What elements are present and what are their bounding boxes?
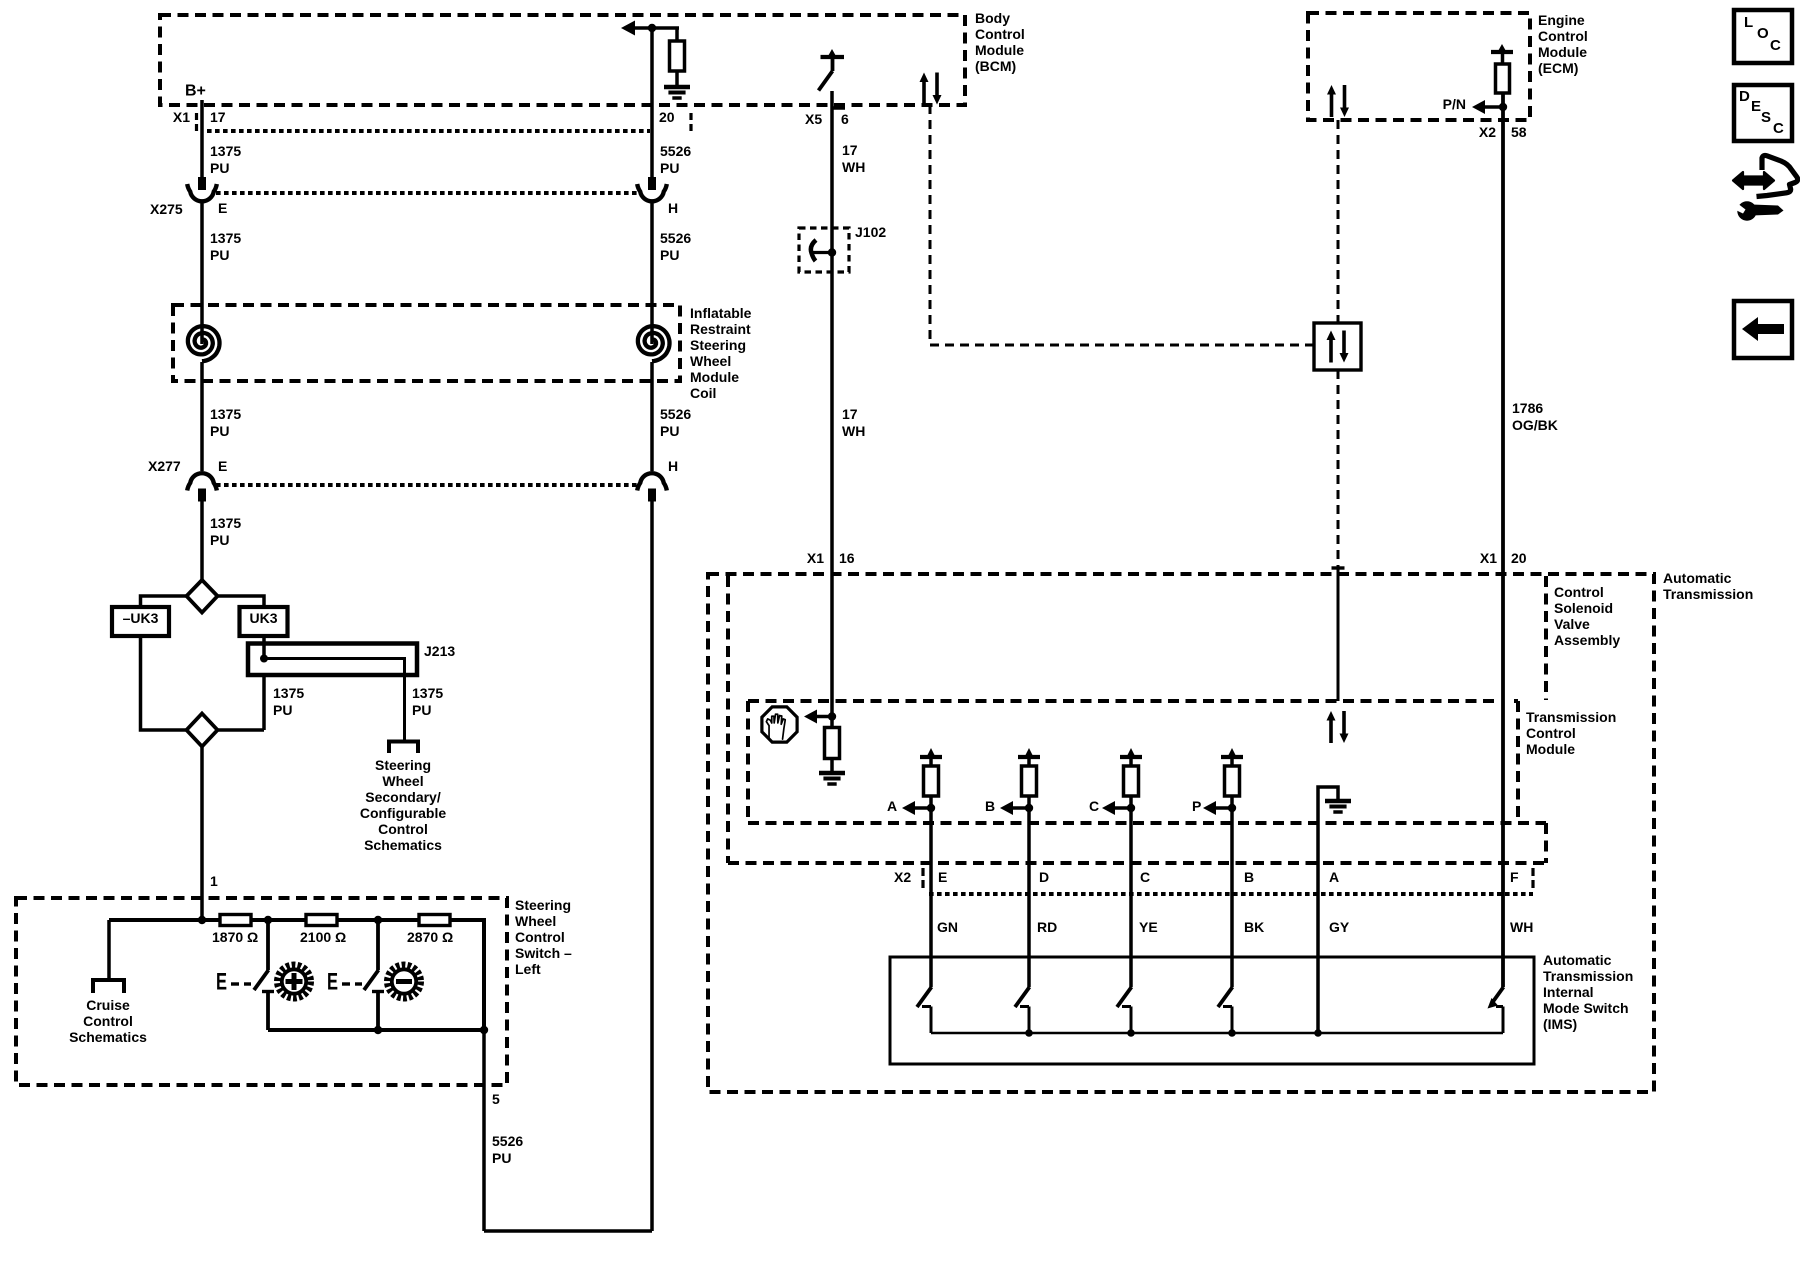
svg-text:Module: Module <box>690 369 739 385</box>
svg-text:OG/BK: OG/BK <box>1512 417 1558 433</box>
svg-text:PU: PU <box>210 532 229 548</box>
svg-text:D: D <box>1739 88 1750 105</box>
wire BK <box>1230 894 1234 987</box>
IMS box <box>890 957 1534 1064</box>
svg-text:(BCM): (BCM) <box>975 58 1016 74</box>
svg-text:–UK3: –UK3 <box>123 610 159 626</box>
svg-text:1870 Ω: 1870 Ω <box>212 929 258 945</box>
svg-text:17: 17 <box>842 406 858 422</box>
svg-text:Coil: Coil <box>690 385 716 401</box>
wire 5526 PU seg2 <box>650 201 654 344</box>
Inflatable Restraint coil box <box>173 305 680 381</box>
net dashed BCM to box <box>930 344 1314 347</box>
svg-text:RD: RD <box>1037 919 1057 935</box>
IMS switch blade <box>1218 987 1233 1007</box>
svg-text:X5: X5 <box>805 111 822 127</box>
svg-text:Control: Control <box>1526 725 1576 741</box>
fuse box -UK3 <box>112 607 169 636</box>
wire ECM pin <box>1501 93 1505 555</box>
svg-text:E: E <box>216 968 227 995</box>
svg-text:X1: X1 <box>173 109 190 125</box>
svg-text:Module: Module <box>1526 741 1575 757</box>
splice diamond S1 <box>187 580 218 613</box>
svg-text:5526: 5526 <box>660 406 691 422</box>
wire -UK3 down <box>141 636 187 730</box>
bus in switch box <box>109 918 220 922</box>
svg-text:6: 6 <box>841 111 849 127</box>
svg-text:Solenoid: Solenoid <box>1554 600 1613 616</box>
svg-text:B: B <box>985 798 995 814</box>
svg-text:1375: 1375 <box>210 143 241 159</box>
arrow A <box>902 801 915 815</box>
svg-text:PU: PU <box>492 1150 511 1166</box>
svg-text:BK: BK <box>1244 919 1264 935</box>
svg-text:B: B <box>1244 869 1254 885</box>
Control Solenoid Valve Assembly box <box>726 576 730 863</box>
svg-text:D: D <box>1039 869 1049 885</box>
svg-text:PU: PU <box>660 247 679 263</box>
svg-text:1375: 1375 <box>210 515 241 531</box>
off-page bracket cruise <box>93 980 124 993</box>
Automatic Transmission box <box>708 574 1654 1092</box>
svg-text:E: E <box>218 200 227 216</box>
gear minus <box>387 965 421 999</box>
X275 row line <box>216 191 638 195</box>
connector X277 right <box>637 473 667 490</box>
resistor below arrow <box>830 717 834 728</box>
svg-text:PU: PU <box>210 247 229 263</box>
svg-text:J213: J213 <box>424 643 455 659</box>
svg-text:L: L <box>1744 14 1753 31</box>
net dashed ECM down <box>1337 120 1340 323</box>
svg-text:S: S <box>1761 109 1771 126</box>
svg-text:C: C <box>1773 120 1784 137</box>
fuse box UK3 <box>240 607 288 636</box>
wire 1375 PU below J213 <box>262 675 266 730</box>
svg-text:WH: WH <box>842 423 865 439</box>
switch 2 (resume) <box>376 920 380 970</box>
svg-text:PU: PU <box>412 702 431 718</box>
wire 5526 PU right column long <box>650 501 654 1231</box>
svg-text:PU: PU <box>660 423 679 439</box>
wire 17 WH upper <box>830 130 834 555</box>
svg-text:Control: Control <box>83 1013 133 1029</box>
svg-text:1375: 1375 <box>210 406 241 422</box>
svg-text:Control: Control <box>378 821 428 837</box>
Engine Control Module (ECM) box <box>1308 13 1530 120</box>
svg-text:Body: Body <box>975 10 1010 26</box>
IMS switch blade <box>1015 987 1030 1007</box>
svg-text:P/N: P/N <box>1443 96 1466 112</box>
X277 row line <box>216 483 638 487</box>
svg-text:Restraint: Restraint <box>690 321 751 337</box>
coil left spiral <box>188 326 220 361</box>
ground in TCM right <box>1325 799 1351 804</box>
svg-text:17: 17 <box>210 109 226 125</box>
svg-text:Steering: Steering <box>690 337 746 353</box>
gear plus <box>277 965 311 999</box>
data link hand symbol <box>762 707 797 742</box>
solenoid B <box>1018 755 1040 759</box>
svg-text:H: H <box>668 458 678 474</box>
svg-text:YE: YE <box>1139 919 1158 935</box>
net arrows box <box>1314 323 1361 370</box>
wire X5-6 stub <box>830 91 834 130</box>
solenoid P <box>1221 755 1243 759</box>
svg-text:Module: Module <box>1538 44 1587 60</box>
svg-text:Switch –: Switch – <box>515 945 572 961</box>
svg-text:X2: X2 <box>1479 124 1496 140</box>
resistor 2870 <box>419 915 450 926</box>
svg-text:Transmission: Transmission <box>1526 709 1616 725</box>
resistor 2100 <box>306 915 337 926</box>
wire 1786 into transmission <box>1501 555 1505 987</box>
svg-text:Internal: Internal <box>1543 984 1594 1000</box>
TCM net arrows <box>1329 719 1333 743</box>
svg-text:UK3: UK3 <box>249 610 277 626</box>
icon back arrow box <box>1734 301 1792 358</box>
arrow to hand <box>804 710 817 724</box>
svg-text:Control: Control <box>1554 584 1604 600</box>
svg-text:Inflatable: Inflatable <box>690 305 752 321</box>
svg-text:X275: X275 <box>150 201 183 217</box>
wire S1 left branch <box>141 596 187 607</box>
wire YE <box>1129 894 1133 987</box>
svg-text:20: 20 <box>1511 550 1527 566</box>
wire 1375 PU seg3 <box>200 501 204 580</box>
svg-text:Transmission: Transmission <box>1663 586 1753 602</box>
svg-text:E: E <box>1751 98 1761 115</box>
svg-text:Control: Control <box>975 26 1025 42</box>
svg-text:E: E <box>938 869 947 885</box>
bus r2-r3 <box>337 918 419 922</box>
svg-text:16: 16 <box>839 550 855 566</box>
svg-text:PU: PU <box>210 160 229 176</box>
svg-text:PU: PU <box>210 423 229 439</box>
svg-text:Transmission: Transmission <box>1543 968 1633 984</box>
svg-text:Cruise: Cruise <box>86 997 130 1013</box>
svg-text:GN: GN <box>937 919 958 935</box>
svg-text:Engine: Engine <box>1538 12 1585 28</box>
svg-text:Steering: Steering <box>515 897 571 913</box>
svg-text:Configurable: Configurable <box>360 805 447 821</box>
wire S1 right branch <box>218 596 265 607</box>
BCM net arrows <box>922 81 926 105</box>
svg-text:5: 5 <box>492 1091 500 1107</box>
svg-text:2870 Ω: 2870 Ω <box>407 929 453 945</box>
svg-text:C: C <box>1770 37 1781 54</box>
svg-text:(IMS): (IMS) <box>1543 1016 1577 1032</box>
svg-text:2100 Ω: 2100 Ω <box>300 929 346 945</box>
coil right spiral <box>638 326 670 361</box>
Steering Wheel Control Switch box <box>16 898 507 1085</box>
svg-text:E: E <box>327 968 338 995</box>
connector X275 left <box>198 177 206 190</box>
svg-text:Valve: Valve <box>1554 616 1590 632</box>
IMS switch blade <box>1117 987 1132 1007</box>
IMS switch blade <box>917 987 932 1007</box>
svg-text:5526: 5526 <box>660 230 691 246</box>
svg-text:WH: WH <box>842 159 865 175</box>
svg-text:5526: 5526 <box>492 1133 523 1149</box>
svg-text:20: 20 <box>659 109 675 125</box>
svg-text:P: P <box>1192 798 1201 814</box>
wire S2 down pin1 <box>200 747 204 921</box>
svg-text:17: 17 <box>842 142 858 158</box>
wire 1375 PU seg1 <box>200 100 204 177</box>
icon DESC box <box>1734 85 1792 141</box>
arrow P <box>1203 801 1216 815</box>
svg-text:1: 1 <box>210 873 218 889</box>
svg-text:5526: 5526 <box>660 143 691 159</box>
wire 20 to arrow <box>650 28 654 177</box>
connector X275 right <box>648 177 656 190</box>
icon nav arrows car <box>1733 172 1774 189</box>
X2 row line <box>929 892 1533 896</box>
svg-text:PU: PU <box>273 702 292 718</box>
svg-text:A: A <box>887 798 897 814</box>
svg-text:1375: 1375 <box>412 685 443 701</box>
bus r3-corner <box>450 920 484 1030</box>
svg-text:1375: 1375 <box>273 685 304 701</box>
wire GY down <box>1316 865 1320 1033</box>
svg-text:Wheel: Wheel <box>690 353 731 369</box>
wire cruise branch <box>107 920 111 978</box>
Body Control Module (BCM) box <box>160 15 965 105</box>
wire UK3 to J213 <box>262 636 266 657</box>
wire B+ feed arrow <box>621 21 635 36</box>
svg-text:Wheel: Wheel <box>382 773 423 789</box>
svg-text:GY: GY <box>1329 919 1350 935</box>
svg-text:X2: X2 <box>894 869 911 885</box>
ground in BCM <box>664 85 690 90</box>
svg-text:Mode Switch: Mode Switch <box>1543 1000 1629 1016</box>
connector X277 left <box>187 473 217 490</box>
wire RD <box>1027 894 1031 987</box>
solenoid C <box>1120 755 1142 759</box>
wire pin5 down <box>482 1030 486 1231</box>
svg-text:C: C <box>1140 869 1150 885</box>
svg-text:1375: 1375 <box>210 230 241 246</box>
resistor 1870 <box>220 915 251 926</box>
IMS bottom bus <box>931 1032 1503 1035</box>
ECM arrows <box>1330 93 1334 117</box>
svg-text:1786: 1786 <box>1512 400 1543 416</box>
wire bottom run to right column <box>484 1229 652 1233</box>
svg-text:A: A <box>1329 869 1339 885</box>
Transmission Control Module box <box>748 699 1500 703</box>
svg-text:PU: PU <box>660 160 679 176</box>
svg-text:WH: WH <box>1510 919 1533 935</box>
splice pack J213 <box>248 644 417 676</box>
icon LOC box <box>1734 10 1792 63</box>
resistor in ECM <box>1491 50 1513 54</box>
svg-text:Schematics: Schematics <box>69 1029 147 1045</box>
solenoid A <box>920 755 942 759</box>
switch X5 in BCM <box>821 55 845 59</box>
icon wrench <box>1737 201 1756 220</box>
ground in TCM <box>819 771 845 776</box>
wire GN <box>929 894 933 987</box>
bus r1-r2 <box>251 918 306 922</box>
svg-text:Assembly: Assembly <box>1554 632 1620 648</box>
svg-text:(ECM): (ECM) <box>1538 60 1578 76</box>
svg-text:58: 58 <box>1511 124 1527 140</box>
svg-text:Secondary/: Secondary/ <box>365 789 441 805</box>
arrow B <box>1000 801 1013 815</box>
switch 1 (set/coast) <box>266 920 270 970</box>
svg-text:Control: Control <box>515 929 565 945</box>
svg-text:Module: Module <box>975 42 1024 58</box>
net dashed BCM down <box>929 105 932 345</box>
svg-text:Automatic: Automatic <box>1543 952 1612 968</box>
svg-text:H: H <box>668 200 678 216</box>
svg-text:X1: X1 <box>1480 550 1497 566</box>
switch bottom bus <box>268 1028 484 1032</box>
off-page bracket steering wheel secondary <box>389 742 418 754</box>
svg-text:Wheel: Wheel <box>515 913 556 929</box>
resistor in BCM <box>675 28 679 41</box>
svg-text:X277: X277 <box>148 458 181 474</box>
svg-text:O: O <box>1757 25 1769 42</box>
splice diamond S2 <box>187 714 218 747</box>
svg-text:Steering: Steering <box>375 757 431 773</box>
ground wire GY <box>1318 787 1338 865</box>
IMS blade F <box>1492 987 1504 1003</box>
wire 17 WH into transmission <box>830 555 834 716</box>
net dashed box down <box>1337 370 1340 568</box>
svg-text:Schematics: Schematics <box>364 837 442 853</box>
svg-text:Control: Control <box>1538 28 1588 44</box>
svg-text:F: F <box>1510 869 1519 885</box>
svg-text:X1: X1 <box>807 550 824 566</box>
splice J102 <box>799 228 849 272</box>
arrow C <box>1102 801 1115 815</box>
svg-text:J102: J102 <box>855 224 886 240</box>
svg-text:C: C <box>1089 798 1099 814</box>
svg-text:B+: B+ <box>185 83 206 100</box>
svg-text:E: E <box>218 458 227 474</box>
svg-text:Automatic: Automatic <box>1663 570 1732 586</box>
svg-text:Left: Left <box>515 961 541 977</box>
net solid into TCM <box>1332 566 1345 569</box>
